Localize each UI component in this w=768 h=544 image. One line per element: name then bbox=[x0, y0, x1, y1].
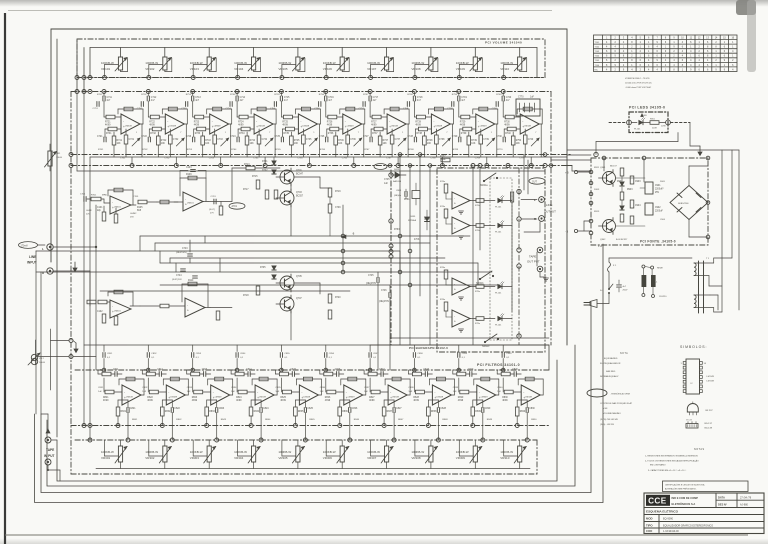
svg-text:C901: C901 bbox=[655, 185, 661, 187]
svg-text:R821: R821 bbox=[103, 397, 109, 399]
svg-text:-: - bbox=[523, 391, 524, 395]
svg-text:110/220: 110/220 bbox=[659, 296, 667, 298]
svg-text:C752: C752 bbox=[137, 108, 143, 110]
svg-text:R828: R828 bbox=[413, 397, 419, 399]
svg-text:C729: C729 bbox=[452, 136, 458, 138]
svg-text:+: + bbox=[454, 288, 456, 292]
loop wire joining filters right bbox=[548, 345, 550, 370]
bus wire y425.5 (dash-dot) bbox=[71, 425, 549, 427]
junctions left end of busses bbox=[75, 76, 79, 80]
svg-text:R761: R761 bbox=[404, 199, 410, 201]
svg-text:R746: R746 bbox=[338, 140, 344, 142]
svg-text:C816: C816 bbox=[335, 369, 341, 371]
svg-text:-1.000 ohms POR VOLTS AC: -1.000 ohms POR VOLTS AC bbox=[625, 86, 652, 89]
svg-text:BF 237: BF 237 bbox=[706, 410, 714, 412]
svg-text:4K99: 4K99 bbox=[371, 124, 377, 126]
svg-text:-: - bbox=[257, 391, 258, 395]
svg-text:REDE: REDE bbox=[657, 268, 663, 270]
svg-text:NORMAL/EQUALIZ: NORMAL/EQUALIZ bbox=[600, 375, 619, 378]
svg-text:1-33-90410-00: 1-33-90410-00 bbox=[663, 530, 679, 533]
vertical wires in bargraph bbox=[472, 166, 474, 346]
ellipse node A701 bbox=[229, 203, 245, 209]
svg-text:VR107: VR107 bbox=[367, 67, 377, 71]
svg-text:170mV: 170mV bbox=[21, 245, 29, 247]
scan black left edge line bbox=[4, 13, 6, 544]
svg-text:R738: R738 bbox=[416, 133, 422, 135]
svg-text:-: - bbox=[213, 391, 214, 395]
svg-text:R743: R743 bbox=[205, 140, 211, 142]
svg-text:R842: R842 bbox=[176, 419, 182, 421]
svg-text:250V: 250V bbox=[623, 289, 628, 291]
svg-text:C855: C855 bbox=[284, 353, 290, 355]
svg-text:PCI BARGRAPN 34102-0: PCI BARGRAPN 34102-0 bbox=[409, 346, 448, 350]
svg-text:C811: C811 bbox=[113, 369, 119, 371]
svg-text:LM349: LM349 bbox=[214, 126, 221, 128]
svg-text:(NE)0u: (NE)0u bbox=[394, 195, 402, 197]
svg-text:Q701: Q701 bbox=[296, 170, 302, 172]
svg-text:R748: R748 bbox=[427, 140, 433, 142]
ellipse symbol tensions bbox=[587, 389, 607, 397]
svg-text:10K: 10K bbox=[427, 143, 432, 145]
svg-text:-: - bbox=[187, 303, 188, 307]
svg-text:LM349: LM349 bbox=[126, 397, 133, 399]
svg-text:NOTA: NOTA bbox=[620, 352, 628, 355]
svg-text:GUM2: GUM2 bbox=[130, 213, 137, 215]
wires transformer to right verticals bbox=[714, 311, 722, 313]
ground arrow right of LEDS board bbox=[689, 123, 691, 147]
svg-text:R829: R829 bbox=[458, 397, 464, 399]
svg-text:C766: C766 bbox=[342, 158, 348, 160]
potentiometer VR309 (bottom row) bbox=[473, 446, 477, 462]
potentiometer VR302 (bottom row) bbox=[163, 446, 167, 462]
svg-text:R730: R730 bbox=[504, 122, 510, 124]
svg-text:R814: R814 bbox=[233, 370, 239, 372]
svg-text:R719: R719 bbox=[335, 191, 341, 193]
svg-text:VR301: VR301 bbox=[101, 456, 111, 460]
svg-text:NOTAS: NOTAS bbox=[694, 448, 705, 451]
switched output line x519 (dash-dot) bbox=[518, 168, 520, 345]
svg-text:LM 349: LM 349 bbox=[707, 376, 715, 378]
svg-text:D702: D702 bbox=[262, 170, 268, 172]
svg-text:C721: C721 bbox=[97, 136, 103, 138]
svg-text:R767: R767 bbox=[364, 149, 370, 151]
op-amp stage band 5 (bottom filter row, 1/2 LM349) bbox=[275, 345, 321, 442]
svg-text:C856: C856 bbox=[329, 353, 335, 355]
svg-text:C760: C760 bbox=[492, 108, 498, 110]
capacitor C905 mains bbox=[617, 284, 622, 286]
svg-text:4K99: 4K99 bbox=[413, 400, 419, 402]
svg-text:R740: R740 bbox=[505, 133, 511, 135]
svg-text:100KB-W: 100KB-W bbox=[411, 450, 424, 454]
svg-text:C768: C768 bbox=[430, 158, 436, 160]
svg-text:C814: C814 bbox=[246, 369, 252, 371]
svg-text:R762: R762 bbox=[142, 149, 148, 151]
top solid rail y47.5 bbox=[90, 47, 537, 49]
svg-text:VR103: VR103 bbox=[190, 67, 200, 71]
scan dark smudge top right corner bbox=[736, 0, 756, 15]
svg-text:4K99: 4K99 bbox=[149, 124, 155, 126]
svg-text:R823: R823 bbox=[192, 397, 198, 399]
op-amp stage band 3 (bottom filter row, 1/2 LM349) bbox=[187, 345, 233, 442]
page top border line bbox=[8, 10, 552, 12]
title block outer frame bbox=[644, 493, 764, 534]
svg-text:R727: R727 bbox=[371, 122, 377, 124]
RC cluster right of x391 bbox=[404, 192, 406, 197]
gain op-amp IC101b (left channel) bbox=[157, 167, 223, 215]
svg-text:1uF: 1uF bbox=[275, 391, 279, 393]
junctions on top edge of PCI FONTE bbox=[602, 156, 606, 160]
svg-text:R850: R850 bbox=[531, 419, 537, 421]
svg-text:VOLUME MAXIMO: VOLUME MAXIMO bbox=[603, 412, 621, 415]
svg-text:C812: C812 bbox=[157, 369, 163, 371]
ground stub near ring bbox=[73, 341, 76, 344]
op-amp stage band 3 (top filter row, 1/2 LM349) bbox=[181, 90, 232, 168]
bridge rectifier SKB1/2/06 bbox=[670, 186, 708, 220]
svg-text:R811: R811 bbox=[100, 370, 106, 372]
transistor package symbol BD137/BD138 bbox=[686, 420, 713, 430]
PCI FONTE 34105-0 board outline (dash-dot) bbox=[591, 158, 708, 245]
svg-text:4K99: 4K99 bbox=[192, 400, 198, 402]
jack tape output 2 bbox=[537, 266, 543, 272]
svg-text:R763: R763 bbox=[394, 229, 400, 231]
comparator op-amp IC701a (bargraph) bbox=[440, 181, 495, 209]
svg-text:LM349: LM349 bbox=[302, 126, 309, 128]
svg-text:PCI LEDS 34105-0: PCI LEDS 34105-0 bbox=[629, 106, 665, 110]
svg-text:-: - bbox=[301, 391, 302, 395]
svg-text:R744: R744 bbox=[250, 140, 256, 142]
switch SW01b bbox=[480, 271, 492, 279]
svg-text:BC557: BC557 bbox=[296, 195, 304, 197]
svg-text:R737: R737 bbox=[440, 156, 446, 158]
PCI BARGRAPH 34102-0 board outline (dash-dot) bbox=[437, 168, 545, 352]
junction rings mid verticals bbox=[388, 164, 392, 168]
svg-text:R837: R837 bbox=[387, 411, 393, 413]
svg-text:3- CAPACITORES EM uF x 10⁻: 3- CAPACITORES EM uF x 10⁻⁶ uF x 10⁻⁹ bbox=[648, 469, 686, 472]
svg-text:R735: R735 bbox=[283, 133, 289, 135]
svg-text:R913: R913 bbox=[594, 211, 600, 213]
svg-text:TAGL: TAGL bbox=[440, 158, 447, 161]
svg-text:10K: 10K bbox=[338, 143, 343, 145]
svg-text:R819: R819 bbox=[455, 370, 461, 372]
diode D702 bbox=[272, 170, 276, 174]
op-amp stage band 7 (bottom filter row, 1/2 LM349) bbox=[364, 345, 410, 442]
svg-text:4K99: 4K99 bbox=[369, 400, 375, 402]
svg-text:C711: C711 bbox=[107, 97, 113, 99]
svg-text:1uF: 1uF bbox=[384, 183, 389, 185]
svg-text:LM349: LM349 bbox=[258, 126, 265, 128]
junction rings on output line bbox=[517, 189, 521, 193]
svg-text:(X-TS)-708 LM 349: (X-TS)-708 LM 349 bbox=[600, 419, 619, 421]
junctions left end of bottom busses bbox=[82, 424, 86, 428]
op-amp stage band 10 (top filter row, 1/2 LM349) bbox=[492, 90, 543, 168]
op-amp stage band 9 (top filter row, 1/2 LM349) bbox=[447, 90, 498, 168]
title block column dividers row1 bbox=[715, 493, 717, 508]
svg-text:-: - bbox=[433, 120, 434, 124]
svg-text:C834: C834 bbox=[231, 387, 237, 389]
svg-text:1uF: 1uF bbox=[497, 391, 501, 393]
svg-text:C733: C733 bbox=[217, 139, 223, 141]
svg-text:- B: - B bbox=[565, 231, 568, 234]
svg-text:LM349: LM349 bbox=[436, 397, 443, 399]
LED PL14x (bargraph IC702a) bbox=[498, 284, 502, 288]
svg-text:-: - bbox=[185, 197, 186, 201]
junction right PCI LEDS bbox=[666, 120, 671, 125]
op-amp stage band 2 (bottom filter row, 1/2 LM349) bbox=[142, 345, 188, 442]
svg-text:C836: C836 bbox=[320, 387, 326, 389]
op-amp stage band 6 (bottom filter row, 1/2 LM349) bbox=[320, 345, 366, 442]
svg-text:R739: R739 bbox=[461, 133, 467, 135]
svg-text:-: - bbox=[454, 282, 455, 286]
svg-text:R729: R729 bbox=[460, 122, 466, 124]
svg-text:C756: C756 bbox=[314, 108, 320, 110]
svg-text:PL141: PL141 bbox=[495, 293, 502, 295]
svg-text:VR303: VR303 bbox=[190, 456, 200, 460]
potentiometer VR307 (bottom row) bbox=[385, 446, 389, 462]
comparator op-amp IC702b (bargraph) bbox=[440, 299, 495, 327]
svg-text:10K: 10K bbox=[294, 143, 299, 145]
svg-text:R816: R816 bbox=[322, 370, 328, 372]
bold switched line x391 (dash-dot) bbox=[390, 170, 392, 345]
svg-text:C725: C725 bbox=[274, 136, 280, 138]
junction ring x71 y340.5 bbox=[69, 339, 73, 343]
svg-text:PCI FILTROS 34101-0: PCI FILTROS 34101-0 bbox=[477, 363, 520, 367]
svg-text:EQ-9090: EQ-9090 bbox=[663, 518, 674, 521]
mains plug symbol bbox=[590, 300, 597, 308]
svg-text:VR102: VR102 bbox=[145, 67, 155, 71]
svg-text:R715: R715 bbox=[252, 176, 258, 178]
svg-text:1uF: 1uF bbox=[320, 391, 324, 393]
svg-text:C718: C718 bbox=[417, 97, 423, 99]
svg-text:R105: R105 bbox=[137, 207, 143, 209]
diode D701 bbox=[272, 161, 276, 165]
svg-text:-: - bbox=[168, 391, 169, 395]
svg-text:C821: C821 bbox=[130, 408, 136, 410]
PCI FILTROS bottom board outline (dash-dot) bbox=[71, 473, 537, 475]
svg-text:C824: C824 bbox=[263, 408, 269, 410]
svg-text:C758: C758 bbox=[403, 108, 409, 110]
op-amp stage band 9 (bottom filter row, 1/2 LM349) bbox=[453, 345, 499, 442]
svg-text:R717: R717 bbox=[243, 189, 249, 191]
jack R line input bbox=[47, 268, 53, 274]
svg-text:-: - bbox=[454, 196, 455, 200]
electrolytic cap near LED column bbox=[511, 192, 514, 202]
svg-text:MOD: MOD bbox=[646, 517, 653, 521]
svg-text:(NE4700V): (NE4700V) bbox=[176, 252, 187, 254]
LED PL14x (bargraph IC701b) bbox=[498, 223, 502, 227]
svg-text:1uF: 1uF bbox=[364, 391, 368, 393]
fuse F1 bbox=[608, 262, 611, 272]
svg-text:LINE: LINE bbox=[29, 255, 36, 259]
op-amp stage band 6 (top filter row, 1/2 LM349) bbox=[314, 90, 365, 168]
svg-text:LM349: LM349 bbox=[391, 126, 398, 128]
svg-text:C719: C719 bbox=[461, 97, 467, 99]
svg-text:C858: C858 bbox=[417, 353, 423, 355]
svg-text:/NTBEA: /NTBEA bbox=[408, 219, 416, 222]
svg-text:C731: C731 bbox=[129, 139, 135, 141]
svg-text:TAPE: TAPE bbox=[529, 255, 536, 259]
svg-text:10K: 10K bbox=[516, 143, 521, 145]
svg-text:C831: C831 bbox=[98, 387, 104, 389]
svg-text:C819: C819 bbox=[468, 369, 474, 371]
svg-text:LM349: LM349 bbox=[525, 397, 532, 399]
svg-text:-: - bbox=[112, 305, 113, 309]
svg-text:SW01a: SW01a bbox=[480, 185, 488, 187]
gain op-amp IC102b (right channel) bbox=[140, 276, 220, 320]
right dash-dot vertical of PCI FILTROS board bbox=[550, 92, 552, 346]
jack tape output 1 bbox=[537, 247, 543, 253]
svg-text:VR306: VR306 bbox=[323, 456, 333, 460]
svg-text:C832: C832 bbox=[142, 387, 148, 389]
svg-text:R815: R815 bbox=[277, 370, 283, 372]
main frame top-left outline bbox=[51, 29, 567, 345]
svg-text:R834: R834 bbox=[254, 411, 260, 413]
buffer bias resistors bbox=[256, 180, 260, 189]
wires from tape input bbox=[47, 443, 49, 459]
svg-text:R761: R761 bbox=[98, 149, 104, 151]
svg-text:C757: C757 bbox=[359, 108, 365, 110]
svg-text:4K99: 4K99 bbox=[280, 400, 286, 402]
jack tape input 2 bbox=[45, 459, 51, 465]
svg-text:CCE: CCE bbox=[648, 497, 667, 506]
potentiometer VR102 (top volume row) bbox=[163, 57, 167, 70]
svg-text:COD: COD bbox=[646, 529, 652, 533]
svg-text:R833: R833 bbox=[209, 411, 215, 413]
svg-text:ESQUEMA ELÉTRICO: ESQUEMA ELÉTRICO bbox=[646, 509, 679, 514]
svg-text:C713: C713 bbox=[195, 97, 201, 99]
svg-text:-: - bbox=[346, 391, 347, 395]
svg-text:+: + bbox=[187, 309, 189, 313]
svg-text:LM349: LM349 bbox=[125, 126, 132, 128]
svg-text:C840: C840 bbox=[497, 387, 503, 389]
svg-text:VR101: VR101 bbox=[101, 67, 111, 71]
svg-text:1uF: 1uF bbox=[408, 391, 412, 393]
svg-text:R741: R741 bbox=[117, 140, 123, 142]
wire y340.5 to ring bbox=[51, 340, 70, 342]
bus wire y154.5 (dash-dot) bbox=[71, 154, 572, 156]
switch SW01c bbox=[485, 334, 497, 342]
coupling resistor R105 bbox=[138, 200, 147, 204]
svg-text:TIPO: TIPO bbox=[646, 524, 653, 528]
wire from LEDS board down to bus bbox=[677, 133, 679, 142]
svg-text:R824: R824 bbox=[236, 397, 242, 399]
svg-text:C720: C720 bbox=[506, 97, 512, 99]
svg-text:C859: C859 bbox=[462, 353, 468, 355]
svg-text:-: - bbox=[167, 120, 168, 124]
svg-text:VR310: VR310 bbox=[500, 456, 510, 460]
transistor Q701 BC547 bbox=[280, 170, 294, 184]
svg-text:PCI VOLUME 341040: PCI VOLUME 341040 bbox=[485, 41, 522, 45]
svg-text:-: - bbox=[124, 391, 125, 395]
CCE logo black box bbox=[646, 495, 670, 506]
svg-text:D905: D905 bbox=[660, 181, 666, 183]
svg-text:LM349: LM349 bbox=[348, 397, 355, 399]
svg-text:C835: C835 bbox=[275, 387, 281, 389]
svg-text:C745: C745 bbox=[384, 179, 390, 181]
svg-text:+: + bbox=[454, 202, 456, 206]
svg-text:R844: R844 bbox=[265, 419, 271, 421]
svg-text:R752: R752 bbox=[141, 94, 147, 96]
svg-text:R818: R818 bbox=[410, 370, 416, 372]
svg-text:R758: R758 bbox=[407, 94, 413, 96]
potentiometer VR101 (top volume row) bbox=[118, 57, 122, 70]
REDE selector circles bbox=[642, 265, 645, 268]
svg-text:R836: R836 bbox=[342, 411, 348, 413]
svg-text:R750: R750 bbox=[516, 140, 522, 142]
svg-text:C736: C736 bbox=[350, 139, 356, 141]
bus wire y370 top of bottom board (dash-dot) bbox=[75, 369, 549, 371]
svg-text:C701: C701 bbox=[80, 194, 86, 196]
op-amp stage band 7 (top filter row, 1/2 LM349) bbox=[359, 90, 410, 168]
transistor Q901 regulator + bbox=[603, 172, 616, 185]
svg-text:Q902: Q902 bbox=[600, 239, 606, 241]
svg-text:BC547: BC547 bbox=[296, 173, 304, 175]
wires to filter banks from buffers bbox=[210, 307, 232, 309]
bargraph feed resistor R737 bbox=[441, 158, 450, 162]
arrow mark above tape input bbox=[46, 429, 50, 433]
svg-text:VR304: VR304 bbox=[234, 456, 244, 460]
svg-text:C904: C904 bbox=[635, 205, 641, 207]
zener and resistor column in PCI FONTE bbox=[620, 168, 624, 176]
junction rings bus edges right of filters bbox=[543, 153, 547, 157]
svg-text:1uF: 1uF bbox=[187, 391, 191, 393]
small ground near line input bundle bbox=[74, 262, 76, 268]
left vertical wire x90 down to bottom bank bbox=[89, 157, 91, 440]
svg-text:-: - bbox=[390, 391, 391, 395]
svg-text:LM349: LM349 bbox=[303, 397, 310, 399]
svg-text:10K: 10K bbox=[117, 143, 122, 145]
svg-text:2200uF: 2200uF bbox=[655, 210, 663, 212]
filter capacitor C901 2200uF bbox=[645, 182, 653, 194]
long wires to bargraph bottom bbox=[390, 337, 549, 339]
svg-text:R109: R109 bbox=[186, 174, 192, 176]
wires to output jacks bbox=[521, 199, 537, 201]
svg-text:-: - bbox=[454, 221, 455, 225]
svg-text:R733: R733 bbox=[195, 133, 201, 135]
wires primary to coils bbox=[642, 268, 644, 275]
PCI VOLUME 341040 board outline (dash-dot) bbox=[77, 39, 545, 78]
svg-text:C739: C739 bbox=[483, 139, 489, 141]
svg-text:IN PUT: IN PUT bbox=[44, 454, 55, 458]
trimmer VR2 100-B bbox=[31, 354, 37, 360]
svg-text:R812: R812 bbox=[144, 370, 150, 372]
svg-text:R759: R759 bbox=[452, 94, 458, 96]
LED PL14x (bargraph IC702b) bbox=[498, 316, 502, 320]
wire bundle filters to power supply bbox=[567, 154, 591, 156]
svg-text:LINE: LINE bbox=[546, 203, 552, 207]
IC package symbol LM349 DIP14 bbox=[681, 359, 715, 394]
svg-text:C906: C906 bbox=[660, 219, 666, 221]
svg-text:C705: C705 bbox=[133, 196, 139, 198]
svg-text:C770: C770 bbox=[518, 97, 524, 99]
svg-text:R749: R749 bbox=[471, 140, 477, 142]
svg-text:4K99: 4K99 bbox=[103, 400, 109, 402]
transformer core bbox=[698, 261, 700, 313]
svg-text:PL101: PL101 bbox=[634, 129, 641, 131]
svg-text:VR 2: VR 2 bbox=[39, 358, 45, 360]
svg-text:C724: C724 bbox=[230, 136, 236, 138]
svg-text:4K99: 4K99 bbox=[325, 400, 331, 402]
svg-text:LM349: LM349 bbox=[259, 397, 266, 399]
svg-text:R756: R756 bbox=[319, 94, 325, 96]
svg-text:OUT: OUT bbox=[532, 181, 537, 183]
svg-text:R835: R835 bbox=[298, 411, 304, 413]
coupling caps C745 C746 to bottom filters bbox=[376, 278, 378, 283]
svg-text:R832: R832 bbox=[165, 411, 171, 413]
svg-text:R764: R764 bbox=[231, 149, 237, 151]
op-amp stage band 4 (top filter row, 1/2 LM349) bbox=[226, 90, 277, 168]
svg-text:R847: R847 bbox=[398, 419, 404, 421]
IC box above stage 10 bbox=[516, 99, 540, 116]
